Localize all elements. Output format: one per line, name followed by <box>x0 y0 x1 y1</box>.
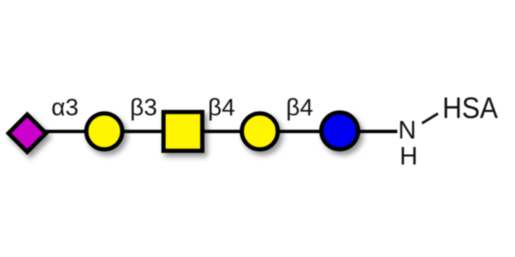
node Gal circle 1 <box>86 113 122 149</box>
bond N to HSA <box>422 114 438 124</box>
svg-text:H: H <box>400 143 418 171</box>
svg-text:HSA: HSA <box>442 92 497 126</box>
wire glycan backbone <box>27 130 397 133</box>
svg-text:β3: β3 <box>130 95 157 122</box>
node GalNAc square <box>164 112 203 151</box>
svg-text:β4: β4 <box>286 95 313 122</box>
node Glc circle blue <box>321 112 358 149</box>
svg-text:β4: β4 <box>208 95 235 122</box>
node Neu5Ac diamond <box>9 115 46 152</box>
svg-text:α3: α3 <box>51 95 78 122</box>
svg-text:N: N <box>398 117 416 145</box>
node Gal circle 2 <box>242 113 278 149</box>
